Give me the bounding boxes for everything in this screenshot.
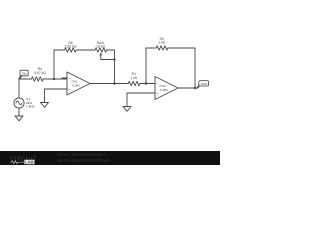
op-amp OA1 input stubs (62, 78, 67, 89)
wire: R2 top loop (146, 47, 195, 49)
wire: OA1 + input to ground (45, 89, 63, 103)
node: pot leg on OA1 output (113, 82, 115, 84)
svg-text:10 kΩ: 10 kΩ (96, 45, 105, 49)
svg-text:+: + (156, 92, 158, 96)
ground (V1) (15, 116, 23, 121)
wire: V1 bottom lead (18, 108, 20, 116)
svg-text:TL081: TL081 (160, 88, 169, 92)
footer bar (0, 151, 220, 165)
junction node dots (53, 58, 196, 89)
ground (OA1 +) (41, 103, 49, 108)
node: wiper join (113, 58, 115, 60)
svg-text:elucorte / 206 Travail1 Manip1: elucorte / 206 Travail1 Manip1 1 (57, 153, 105, 157)
svg-text:9.87 kΩ: 9.87 kΩ (34, 71, 46, 75)
wire: pot right leg down to OA1 output (114, 50, 116, 84)
voltage source V1 (14, 98, 24, 108)
wire: OA1 output to R1 (90, 83, 128, 85)
resistor R1 (128, 81, 140, 85)
wire: R2 left leg up (145, 48, 147, 84)
svg-text:3.32 kΩ: 3.32 kΩ (65, 45, 77, 49)
svg-text:−: − (156, 82, 158, 86)
ground (OA2 +) (123, 107, 131, 112)
wire: OA2 + input to ground (127, 93, 150, 107)
svg-text:1 kHz: 1 kHz (26, 105, 35, 109)
svg-text:LAB: LAB (25, 160, 33, 165)
node: R2 tap (145, 82, 147, 84)
wire: feedback tap vertical x=54 (53, 50, 55, 79)
node: R2 leg on OA2 output (194, 87, 196, 89)
CircuitLab logo (10, 156, 37, 164)
potentiometer Rpot wiper arrow (101, 54, 115, 60)
potentiometer Rpot body (95, 48, 107, 52)
svg-text:TL081: TL081 (72, 83, 81, 87)
resistor Ra (32, 77, 44, 81)
svg-text:1 kΩ: 1 kΩ (130, 76, 138, 80)
svg-text:Vin: Vin (22, 72, 27, 76)
svg-text:+: + (68, 88, 70, 92)
svg-text:−: − (68, 76, 70, 80)
wire: feedback top loop segments (54, 49, 115, 51)
op-amp OA2 input stubs (150, 84, 155, 94)
resistor R2 (156, 46, 168, 50)
wire: OA2 output to Vout (178, 87, 197, 89)
wire: main input net y=79 (19, 78, 67, 80)
flag Vin (19, 70, 28, 79)
node: feedback tap on input wire (53, 78, 55, 80)
flag Vout (197, 81, 209, 89)
wire: R1 to OA2 inverting input (140, 83, 155, 85)
svg-text:Vout: Vout (201, 82, 207, 86)
svg-text:1 kΩ: 1 kΩ (158, 41, 166, 45)
op-amp OA1 (67, 72, 90, 95)
op-amp OA2 (155, 77, 178, 100)
wire: V1 top lead vertical (18, 79, 20, 98)
svg-text:http://circuitlab.com/c647d/1q: http://circuitlab.com/c647d/1q/1qyby (57, 159, 111, 163)
resistor Rb (65, 48, 77, 52)
wire: R2 right leg down to OA2 output (194, 48, 196, 88)
